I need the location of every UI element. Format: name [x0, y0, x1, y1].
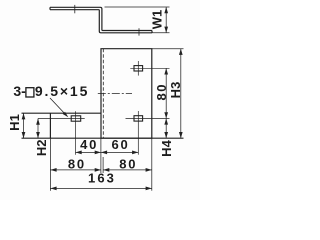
top view: right end cap of bottom bar: [151, 31, 153, 33]
top edge right extension for H3: [152, 48, 184, 50]
top slot vertical centerline: [137, 61, 139, 76]
top view: Z profile inner surface (top bar bottom edge, web left face, bottom bar bottom edge): [50, 10, 152, 33]
dimension line H1: [23, 113, 25, 138]
extension line from bottom bar for W1: [152, 32, 170, 34]
top slot horizontal centerline + 80 extension: [130, 67, 169, 69]
60 arrows: [101, 151, 107, 155]
leader arrowhead: [63, 112, 69, 118]
bottom slot vertical centerline + 60 extension: [137, 111, 139, 155]
dimension line 40/60 row: [76, 151, 139, 153]
svg-text:60: 60: [111, 137, 129, 152]
dimension line W1: [165, 7, 167, 33]
svg-text:H4: H4: [159, 139, 174, 156]
extension line flange left edge down: [49, 138, 51, 191]
front view: back flange top edge + H1 extension: [22, 112, 102, 114]
leader line for slot callout: [50, 98, 67, 116]
svg-text:H1: H1: [7, 114, 22, 131]
svg-text:80: 80: [119, 156, 137, 171]
top view: slot center tick on bottom bar: [138, 28, 140, 35]
80 right-row arrows: [103, 168, 109, 172]
dimension line 80/80 row: [50, 169, 151, 171]
front view: hidden bend line: [102, 49, 104, 139]
svg-text:80: 80: [68, 156, 86, 171]
dimension line 163 row: [50, 187, 151, 189]
extension line hidden bend down: [102, 157, 104, 173]
front view: bottom edge with left/right extensions: [22, 137, 184, 139]
extension line plate right edge down: [151, 138, 153, 191]
H1 arrows: [22, 113, 26, 119]
svg-text:3-: 3-: [13, 83, 26, 99]
H2 arrows: [36, 119, 40, 125]
left flange slot: [71, 116, 81, 121]
dimension line 80 right + H4: [165, 68, 167, 138]
bottom slot: [134, 116, 143, 121]
left slot horizontal centerline + H2 extension: [38, 118, 85, 120]
front view: back flange left end: [49, 113, 51, 138]
H3 arrows: [179, 49, 183, 55]
svg-text:80: 80: [154, 83, 169, 100]
arrowheads: [22, 7, 183, 190]
svg-text:40: 40: [80, 137, 98, 152]
front view: plate horizontal centerline: [98, 93, 132, 95]
80 left arrows: [50, 168, 56, 172]
dimension line H3: [180, 49, 182, 139]
163 arrows: [50, 187, 56, 191]
top slot: [134, 66, 143, 71]
top view: Z profile outer surface (top bar top edge, web right face, bottom bar top edge): [50, 7, 152, 30]
extension line plate left edge down: [100, 138, 102, 173]
W1 arrows: [164, 7, 168, 13]
dimension line H2: [37, 119, 39, 139]
svg-text:H2: H2: [34, 139, 49, 156]
H4 arrows: [164, 118, 168, 124]
extension line from top bar for W1: [105, 6, 170, 8]
80 right arrows: [164, 68, 168, 74]
svg-text:W1: W1: [150, 10, 165, 30]
bottom slot horizontal centerline + extension: [126, 117, 170, 119]
front view: plate outline: [101, 49, 152, 139]
left slot vertical centerline + 40 extension: [75, 111, 77, 154]
svg-text:9.5×15: 9.5×15: [35, 83, 89, 99]
top view: slot center tick on top bar: [74, 5, 76, 13]
svg-text:163: 163: [88, 171, 116, 186]
svg-text:H3: H3: [168, 82, 183, 99]
40 arrows: [76, 151, 82, 155]
top view: left end cap of top bar: [49, 7, 51, 9]
